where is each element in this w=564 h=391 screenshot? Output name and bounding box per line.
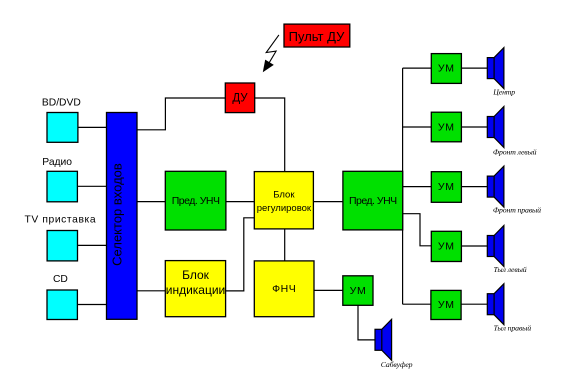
svg-text:УМ: УМ	[438, 122, 455, 134]
svg-text:BD/DVD: BD/DVD	[42, 97, 81, 108]
svg-text:ДУ: ДУ	[232, 93, 248, 105]
svg-text:индикации: индикации	[166, 283, 226, 297]
svg-text:Пульт ДУ: Пульт ДУ	[289, 29, 345, 44]
svg-text:УМ: УМ	[438, 299, 455, 311]
svg-text:регулировок: регулировок	[257, 203, 312, 214]
svg-text:Фронт правый: Фронт правый	[493, 206, 541, 215]
svg-text:ФНЧ: ФНЧ	[272, 283, 296, 295]
svg-text:Селектор входов: Селектор входов	[110, 163, 125, 266]
svg-text:Пред. УНЧ: Пред. УНЧ	[349, 195, 397, 207]
svg-text:Пред. УНЧ: Пред. УНЧ	[172, 195, 220, 207]
svg-text:УМ: УМ	[350, 285, 367, 297]
svg-text:Тыл левый: Тыл левый	[494, 265, 527, 274]
svg-text:Радио: Радио	[42, 157, 72, 168]
svg-text:УМ: УМ	[438, 181, 455, 193]
svg-text:Блок: Блок	[182, 268, 210, 282]
svg-text:УМ: УМ	[438, 63, 455, 75]
svg-text:Блок: Блок	[273, 190, 295, 201]
svg-text:Фронт левый: Фронт левый	[493, 148, 537, 157]
svg-text:Тыл правый: Тыл правый	[494, 324, 532, 333]
svg-text:TV приставка: TV приставка	[25, 215, 97, 226]
svg-text:CD: CD	[53, 274, 68, 285]
svg-text:Центр: Центр	[492, 88, 515, 97]
svg-text:Сабвуфер: Сабвуфер	[381, 360, 413, 369]
svg-text:УМ: УМ	[438, 240, 455, 252]
